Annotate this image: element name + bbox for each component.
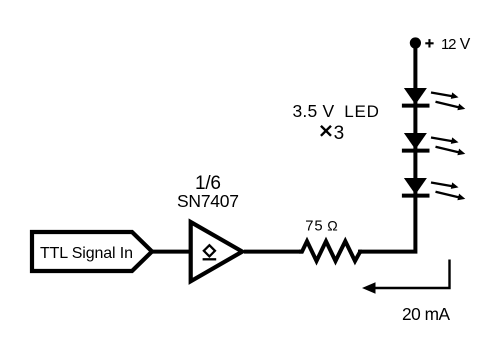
svg-text:SN7407: SN7407 [177, 191, 239, 211]
current direction indicator 20 mA [370, 260, 450, 289]
open-collector underline [203, 258, 217, 260]
LED D3 [402, 178, 465, 200]
svg-text:20 mA: 20 mA [402, 304, 450, 324]
label + 12 V [425, 39, 433, 47]
op-amp buffer U1 SN7407 [191, 222, 243, 281]
svg-text:TTL Signal In: TTL Signal In [40, 245, 133, 262]
svg-text:Ω: Ω [327, 217, 337, 233]
node +12V terminal dot [410, 37, 421, 48]
svg-text:75: 75 [305, 218, 322, 234]
LED D1 [402, 88, 465, 110]
resistor R1 [299, 241, 362, 261]
svg-text:3.5 V: 3.5 V [293, 101, 335, 121]
svg-text:V: V [460, 36, 471, 53]
LED D2 [402, 133, 465, 155]
open-collector diamond symbol [204, 245, 215, 256]
connector TTL Signal In tag [32, 232, 152, 271]
wire: tag to buffer input [150, 250, 190, 254]
wire: +12V rail down through LEDs and corner to resistor [358, 43, 415, 252]
svg-text:3: 3 [334, 123, 345, 144]
wire: buffer output to resistor [244, 250, 303, 254]
svg-text:LED: LED [344, 102, 379, 121]
svg-text:12: 12 [441, 36, 457, 53]
